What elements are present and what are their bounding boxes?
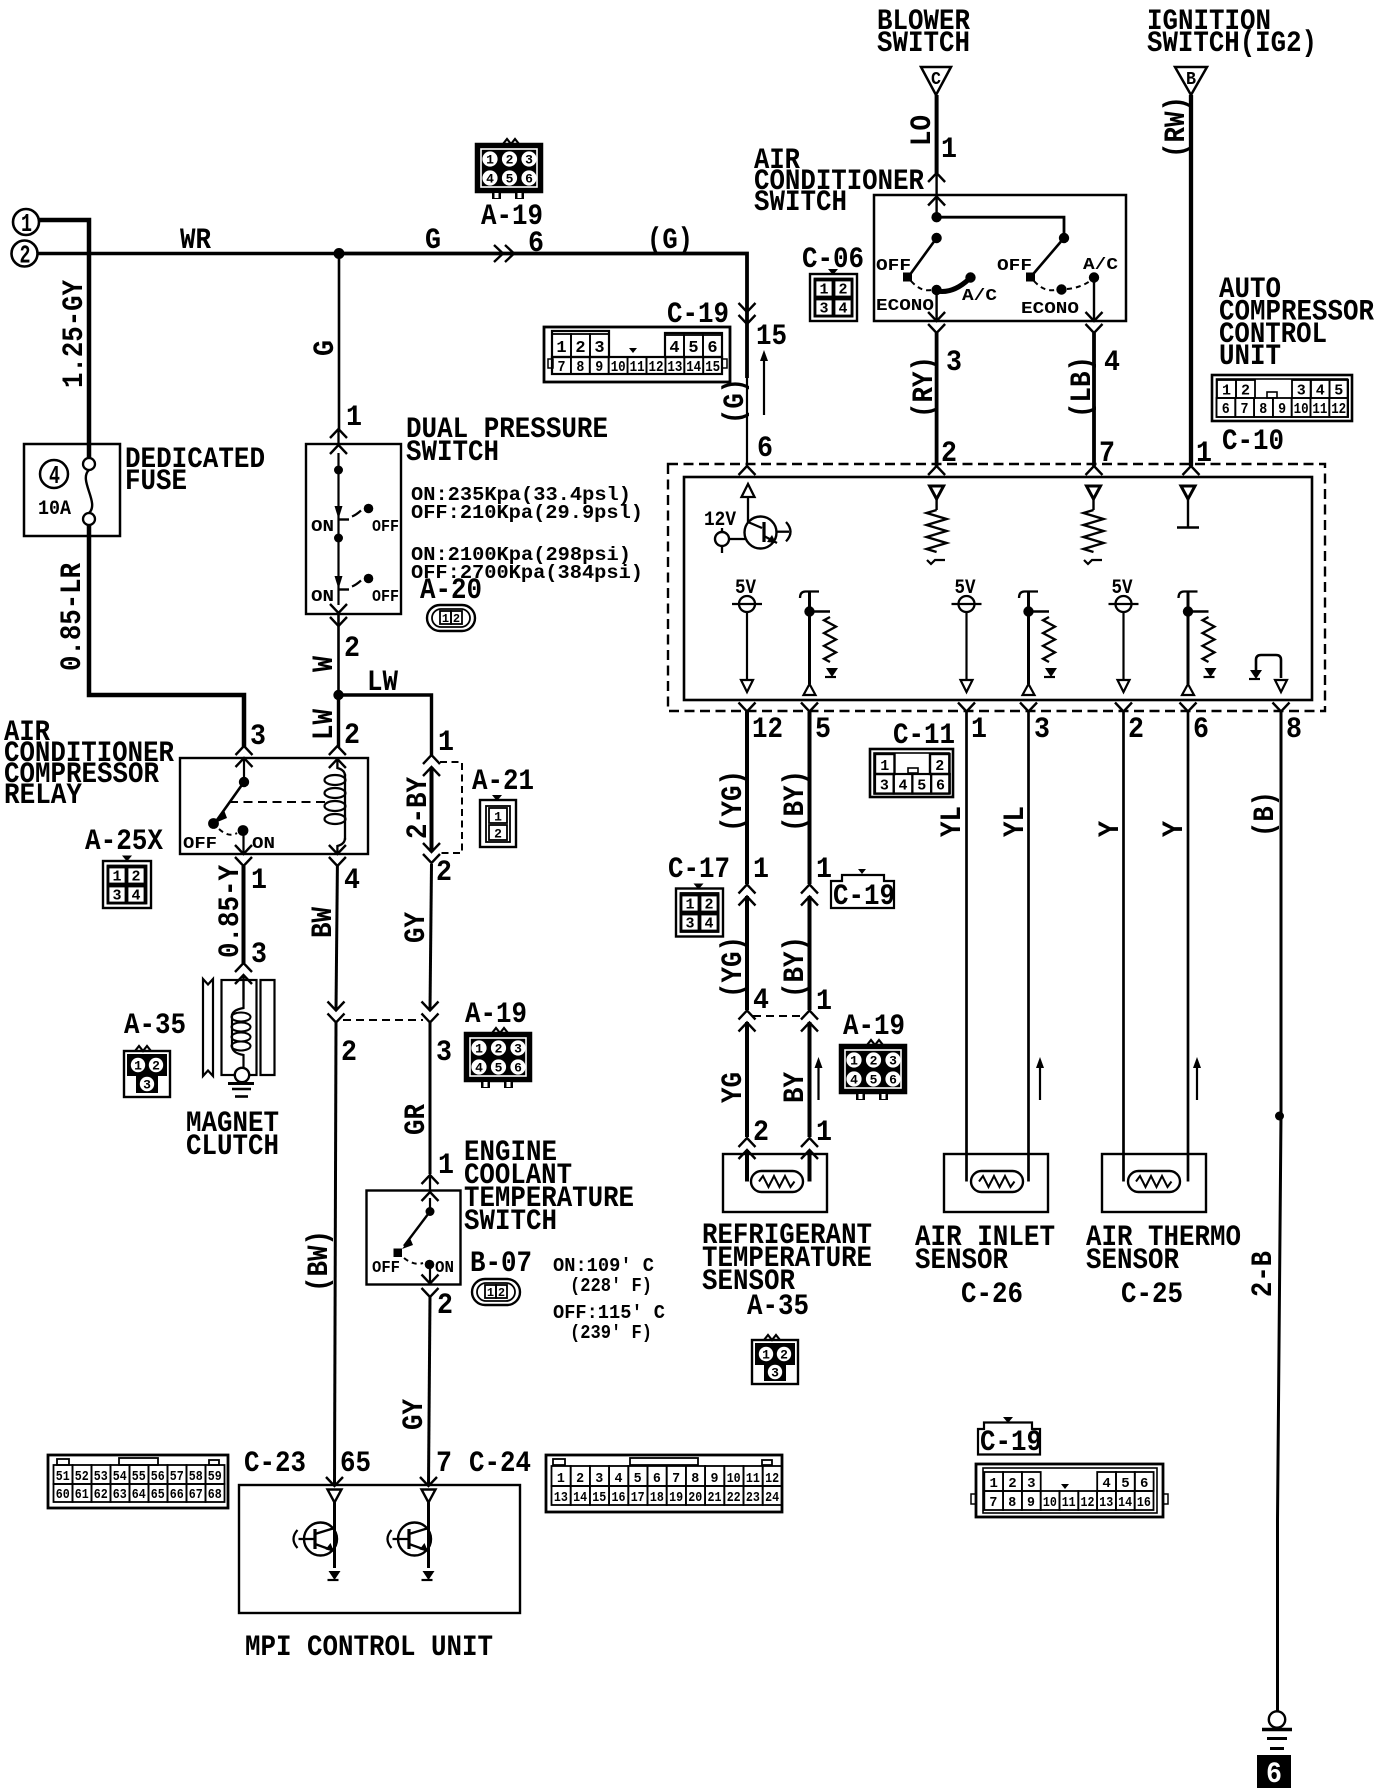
svg-text:1: 1 bbox=[438, 726, 454, 760]
svg-text:4: 4 bbox=[344, 864, 360, 898]
wire stub into DPS bbox=[337, 431, 339, 444]
svg-text:W: W bbox=[308, 656, 342, 672]
svg-text:1: 1 bbox=[685, 897, 694, 914]
svg-text:65: 65 bbox=[340, 1447, 371, 1481]
svg-text:2-B: 2-B bbox=[1247, 1251, 1281, 1297]
pin 7 crossing chevron bbox=[1086, 466, 1103, 475]
svg-text:(RW): (RW) bbox=[1160, 96, 1194, 158]
AC switch right ECONO contact dot bbox=[1056, 284, 1066, 294]
svg-text:3: 3 bbox=[525, 153, 533, 168]
sensor chevrons on BY wire bbox=[801, 1138, 818, 1159]
wire stub into AC switch bbox=[935, 175, 937, 217]
chevron at MPI pin 65 bbox=[326, 1477, 343, 1486]
svg-text:Y: Y bbox=[1158, 821, 1192, 837]
svg-text:12V: 12V bbox=[704, 509, 736, 532]
ECT dashed arc OFF-ON bbox=[404, 1258, 423, 1264]
pin 6 crossing chevron bbox=[739, 466, 756, 475]
chevron above ECT switch bbox=[422, 1175, 439, 1184]
svg-text:0.85-LR: 0.85-LR bbox=[56, 563, 90, 671]
ECT pole dot bbox=[426, 1207, 435, 1216]
svg-text:4: 4 bbox=[1102, 1476, 1110, 1492]
wire G to connector A-19 and down to control unit pin 6 bbox=[339, 254, 747, 379]
svg-text:(G): (G) bbox=[719, 378, 753, 424]
svg-text:1: 1 bbox=[346, 401, 362, 435]
svg-text:11: 11 bbox=[746, 1471, 760, 1487]
svg-text:1: 1 bbox=[816, 985, 832, 1019]
svg-text:3: 3 bbox=[112, 888, 121, 905]
svg-text:5: 5 bbox=[506, 172, 514, 187]
chevron above DPS bbox=[330, 429, 347, 438]
svg-text:51: 51 bbox=[56, 1469, 70, 1485]
air thermo sensor box bbox=[1102, 1154, 1206, 1212]
svg-text:ON:109' C: ON:109' C bbox=[553, 1255, 654, 1277]
connector C-19 (bottom, 16-pin) bbox=[971, 1464, 1168, 1517]
svg-text:C-19: C-19 bbox=[980, 1426, 1042, 1460]
svg-text:ON: ON bbox=[311, 518, 334, 537]
svg-text:12: 12 bbox=[752, 713, 783, 747]
svg-text:SENSOR: SENSOR bbox=[1086, 1244, 1179, 1278]
svg-text:7: 7 bbox=[1099, 437, 1115, 471]
svg-text:23: 23 bbox=[746, 1490, 760, 1506]
connector A-19 (left, 6-pin) bbox=[465, 1028, 531, 1088]
connector A-19 chevrons on YG wire bbox=[739, 1011, 756, 1032]
svg-text:1: 1 bbox=[971, 713, 987, 747]
ECT output stub bbox=[429, 1264, 431, 1284]
magnet clutch right plate bbox=[261, 980, 275, 1075]
svg-text:B-07: B-07 bbox=[470, 1247, 532, 1281]
svg-text:7: 7 bbox=[558, 359, 566, 376]
svg-text:2: 2 bbox=[1008, 1476, 1016, 1492]
svg-text:6: 6 bbox=[757, 432, 773, 466]
svg-text:2: 2 bbox=[131, 869, 140, 886]
svg-text:2: 2 bbox=[437, 1289, 453, 1323]
svg-text:12: 12 bbox=[1081, 1495, 1095, 1511]
svg-text:16: 16 bbox=[1137, 1495, 1151, 1511]
svg-text:C: C bbox=[931, 70, 941, 90]
svg-text:BY: BY bbox=[779, 1072, 813, 1103]
svg-text:1: 1 bbox=[438, 1149, 454, 1183]
svg-text:SWITCH: SWITCH bbox=[464, 1205, 557, 1239]
label DUAL PRESSURE SWITCH bbox=[406, 413, 608, 470]
relay common contact dot bbox=[239, 777, 249, 787]
auto compressor control unit solid box bbox=[684, 477, 1312, 700]
svg-text:68: 68 bbox=[208, 1487, 222, 1503]
svg-text:MPI CONTROL UNIT: MPI CONTROL UNIT bbox=[245, 1631, 493, 1665]
svg-text:2: 2 bbox=[453, 612, 460, 626]
svg-text:SWITCH: SWITCH bbox=[754, 186, 847, 220]
svg-text:4: 4 bbox=[1104, 346, 1120, 380]
svg-text:2: 2 bbox=[753, 1116, 769, 1150]
connector C-19 tag (bottom) bbox=[978, 1417, 1042, 1460]
svg-text:3: 3 bbox=[1027, 1476, 1035, 1492]
svg-text:OFF: OFF bbox=[183, 835, 217, 854]
AC switch right dashed arc ECONO-A/C bbox=[1067, 281, 1090, 289]
svg-text:4: 4 bbox=[838, 301, 847, 318]
svg-text:BW: BW bbox=[307, 907, 341, 938]
svg-text:4: 4 bbox=[486, 172, 494, 187]
node 2 (page link circle) bbox=[12, 241, 38, 271]
svg-text:A/C: A/C bbox=[1083, 256, 1118, 275]
svg-text:3: 3 bbox=[1297, 383, 1306, 400]
svg-text:15: 15 bbox=[705, 359, 720, 376]
svg-text:2: 2 bbox=[495, 1042, 503, 1057]
fuse number circle 4 bbox=[40, 460, 68, 491]
svg-text:A-21: A-21 bbox=[472, 765, 534, 799]
wire stub into ECT switch bbox=[429, 1177, 431, 1191]
wire (RW) from ignition switch to control unit pin 1 bbox=[1189, 95, 1193, 466]
svg-text:10: 10 bbox=[611, 359, 626, 376]
chevron on BW wire at A-19 bbox=[328, 1002, 345, 1023]
svg-text:6: 6 bbox=[1140, 1476, 1148, 1492]
svg-text:OFF: OFF bbox=[997, 257, 1032, 276]
chevron at ECT bottom edge bbox=[422, 1275, 439, 1284]
connector A-19 (mid, 6-pin) bbox=[840, 1040, 906, 1100]
DPS switch 1 lever arc bbox=[352, 511, 361, 517]
svg-text:OFF: OFF bbox=[372, 1259, 400, 1278]
svg-text:60: 60 bbox=[56, 1487, 70, 1503]
svg-text:1: 1 bbox=[1196, 437, 1212, 471]
connector A-35 (left, 3-pin) bbox=[124, 1046, 170, 1097]
connector C-17 chevrons on BY wire bbox=[801, 885, 818, 906]
AC switch left OFF contact bbox=[903, 273, 912, 282]
svg-text:16: 16 bbox=[612, 1490, 626, 1506]
svg-text:1: 1 bbox=[442, 612, 449, 626]
wire BY lower segment bbox=[808, 1022, 812, 1137]
svg-text:1: 1 bbox=[486, 153, 494, 168]
svg-text:5: 5 bbox=[495, 1061, 503, 1076]
transistor Q3 (MPI pin 7 driver) bbox=[388, 1490, 436, 1569]
relay output stub pin 1 bbox=[242, 830, 244, 853]
chevron below DPS bbox=[330, 617, 347, 626]
chevron at AC switch top edge bbox=[928, 197, 945, 206]
svg-text:1: 1 bbox=[762, 1348, 770, 1363]
svg-text:(RY): (RY) bbox=[908, 356, 942, 418]
svg-text:1: 1 bbox=[880, 758, 889, 775]
svg-text:YL: YL bbox=[999, 806, 1033, 837]
air thermo sensor element (thermistor) bbox=[1128, 1171, 1180, 1192]
wire LW down to compressor relay bbox=[337, 695, 340, 747]
wire W from DPS pin 2 bbox=[337, 614, 340, 695]
AC switch right A/C contact dot bbox=[1089, 272, 1099, 282]
pin 8 crossing chevron bbox=[1273, 703, 1290, 712]
svg-text:Y: Y bbox=[1094, 821, 1128, 837]
svg-text:OFF: OFF bbox=[876, 257, 911, 276]
svg-text:2-BY: 2-BY bbox=[402, 777, 436, 839]
svg-text:1: 1 bbox=[112, 869, 121, 886]
direction arrow up beside (G) wire bbox=[760, 350, 768, 415]
svg-text:(228' F): (228' F) bbox=[570, 1275, 652, 1297]
svg-text:2: 2 bbox=[780, 1348, 788, 1363]
svg-text:20: 20 bbox=[688, 1490, 702, 1506]
svg-text:4: 4 bbox=[1316, 383, 1325, 400]
wire YG lower segment bbox=[745, 1022, 749, 1137]
svg-text:3: 3 bbox=[594, 339, 604, 358]
chevron at MPI pin 7 bbox=[420, 1477, 437, 1486]
AC switch left A/C contact dot bbox=[965, 272, 975, 282]
svg-text:SENSOR: SENSOR bbox=[915, 1244, 1008, 1278]
svg-text:0.85-Y: 0.85-Y bbox=[214, 865, 248, 958]
svg-text:(BY): (BY) bbox=[779, 936, 813, 998]
svg-text:FUSE: FUSE bbox=[125, 465, 187, 499]
svg-text:3: 3 bbox=[685, 916, 694, 933]
wire (YG) mid segment bbox=[745, 896, 749, 1010]
node 1 (page link circle) bbox=[13, 209, 39, 239]
sensor input with pull resistor (pin 3) bbox=[1019, 592, 1038, 685]
wire 0.85-Y to magnet clutch bbox=[242, 866, 246, 963]
svg-text:54: 54 bbox=[113, 1469, 127, 1485]
svg-text:2: 2 bbox=[506, 153, 514, 168]
svg-text:2: 2 bbox=[152, 1059, 160, 1074]
wire stub into magnet clutch bbox=[242, 975, 244, 1000]
pull-down resistor R2 under pin 7 bbox=[1084, 486, 1104, 564]
svg-text:(G): (G) bbox=[647, 224, 693, 258]
ECT lever (OFF position) bbox=[402, 1212, 430, 1250]
AC switch right pole dot bbox=[1059, 233, 1069, 243]
sensor input with pull resistor (pin 6) bbox=[1179, 592, 1198, 685]
chevrons at magnet clutch bbox=[235, 963, 252, 984]
svg-text:1: 1 bbox=[557, 1471, 565, 1487]
svg-text:3: 3 bbox=[251, 938, 267, 972]
svg-text:1: 1 bbox=[989, 1476, 997, 1492]
svg-text:(239' F): (239' F) bbox=[570, 1322, 652, 1344]
svg-text:C-19: C-19 bbox=[667, 298, 729, 332]
svg-text:OFF: OFF bbox=[372, 518, 399, 537]
svg-text:15: 15 bbox=[756, 320, 787, 354]
svg-text:64: 64 bbox=[132, 1487, 146, 1503]
svg-text:OFF:210Kpa(29.9psl): OFF:210Kpa(29.9psl) bbox=[411, 502, 643, 524]
svg-text:4: 4 bbox=[850, 1073, 858, 1088]
transistor Q1 (PNP, 12V switch) bbox=[745, 517, 791, 549]
chevrons at A-21 bottom bbox=[423, 843, 440, 863]
MPI control unit box bbox=[239, 1485, 520, 1613]
svg-text:65: 65 bbox=[151, 1487, 165, 1503]
chevron at DPS bottom edge bbox=[330, 604, 347, 613]
svg-text:7: 7 bbox=[436, 1447, 452, 1481]
svg-text:7: 7 bbox=[672, 1471, 680, 1487]
AC switch left dashed arc OFF-ECONO bbox=[911, 281, 931, 290]
connector A-21 (2-pin vertical) bbox=[480, 795, 516, 847]
svg-text:24: 24 bbox=[765, 1490, 779, 1506]
dual pressure switch box bbox=[306, 444, 401, 614]
page number box 6 bbox=[1257, 1755, 1291, 1790]
svg-text:3: 3 bbox=[1034, 713, 1050, 747]
svg-text:1: 1 bbox=[556, 339, 566, 358]
wire (BY) from pin 5 bbox=[808, 712, 812, 885]
svg-text:OFF:115' C: OFF:115' C bbox=[553, 1302, 665, 1324]
svg-text:9: 9 bbox=[711, 1471, 719, 1487]
svg-text:12: 12 bbox=[1331, 401, 1346, 418]
relay ON contact dot bbox=[238, 825, 249, 836]
svg-text:11: 11 bbox=[1312, 401, 1327, 418]
svg-text:GR: GR bbox=[400, 1104, 434, 1135]
svg-text:C-25: C-25 bbox=[1121, 1278, 1183, 1312]
svg-text:62: 62 bbox=[94, 1487, 108, 1503]
AC switch left pole dot bbox=[931, 233, 941, 243]
svg-text:18: 18 bbox=[650, 1490, 664, 1506]
svg-text:B: B bbox=[1186, 70, 1196, 90]
label AIR INLET SENSOR bbox=[915, 1221, 1055, 1278]
svg-text:14: 14 bbox=[1118, 1495, 1132, 1511]
connector C-10 (12-pin) bbox=[1212, 375, 1352, 421]
svg-text:3: 3 bbox=[250, 720, 266, 754]
sensor input with pull resistor (pin 5) bbox=[800, 592, 819, 685]
svg-text:22: 22 bbox=[727, 1490, 741, 1506]
svg-text:2: 2 bbox=[1128, 713, 1144, 747]
svg-text:OFF: OFF bbox=[372, 588, 399, 607]
chevrons AC switch left output bbox=[928, 312, 945, 333]
AC switch right dashed arc OFF-ECONO bbox=[1034, 281, 1055, 290]
svg-text:A-25X: A-25X bbox=[85, 825, 163, 859]
ECT OFF contact square bbox=[394, 1249, 403, 1258]
relay OFF contact dot bbox=[208, 818, 219, 829]
open triangle at pin 8 bbox=[1275, 680, 1287, 692]
svg-text:1: 1 bbox=[941, 133, 957, 167]
svg-text:6: 6 bbox=[936, 778, 945, 795]
svg-text:C-23: C-23 bbox=[244, 1447, 306, 1481]
svg-text:C-24: C-24 bbox=[469, 1447, 531, 1481]
direction arrow beside BY wire bbox=[815, 1057, 823, 1100]
wire YL from pin 1 bbox=[965, 712, 968, 1182]
label ENGINE COOLANT TEMPERATURE SWITCH bbox=[464, 1136, 634, 1239]
svg-text:2: 2 bbox=[575, 339, 585, 358]
svg-text:1: 1 bbox=[487, 1286, 494, 1300]
svg-text:55: 55 bbox=[132, 1469, 146, 1485]
svg-text:4: 4 bbox=[475, 1061, 483, 1076]
connector C-23 (68-pin block) bbox=[48, 1455, 228, 1508]
12V supply arrow (collector to +12V) bbox=[742, 484, 755, 522]
dedicated fuse box bbox=[24, 444, 120, 536]
direction arrow beside Y wire bbox=[1193, 1057, 1201, 1100]
svg-text:SWITCH(IG2): SWITCH(IG2) bbox=[1147, 27, 1317, 61]
svg-text:RELAY: RELAY bbox=[4, 779, 82, 813]
svg-text:4: 4 bbox=[131, 888, 140, 905]
AC switch left output stub bbox=[935, 290, 937, 320]
svg-text:6: 6 bbox=[889, 1073, 897, 1088]
wire (B)/2-B from pin 8 to ground bbox=[1278, 712, 1282, 1713]
connector B-07 (oval 2-pin) bbox=[472, 1279, 520, 1305]
svg-text:14: 14 bbox=[686, 359, 701, 376]
wire Y from pin 2 bbox=[1122, 712, 1125, 1182]
svg-text:7: 7 bbox=[1241, 401, 1249, 418]
svg-text:5: 5 bbox=[815, 713, 831, 747]
svg-text:A-19: A-19 bbox=[481, 200, 543, 234]
svg-text:4: 4 bbox=[669, 339, 679, 358]
AC switch thick arc ECONO-A/C (selected) bbox=[937, 279, 969, 292]
svg-text:2: 2 bbox=[20, 241, 31, 271]
pin 12 crossing chevron bbox=[739, 703, 756, 712]
wire LO from blower switch bbox=[935, 95, 939, 173]
svg-text:3: 3 bbox=[889, 1054, 897, 1069]
dashed link on A-19 (BW/GY wires) bbox=[343, 1019, 423, 1021]
wire YG stub into sensor bbox=[745, 1150, 749, 1182]
chevrons below relay pin 4 bbox=[329, 845, 346, 866]
svg-text:52: 52 bbox=[75, 1469, 89, 1485]
svg-text:1: 1 bbox=[475, 1042, 483, 1057]
pull-down resistor R1 under pin 2 bbox=[927, 486, 947, 564]
connector A-35 (bottom, 3-pin) bbox=[752, 1335, 798, 1384]
magnet clutch coil box bbox=[222, 980, 257, 1075]
svg-text:5: 5 bbox=[688, 339, 698, 358]
svg-text:8: 8 bbox=[1259, 401, 1267, 418]
svg-text:A/C: A/C bbox=[962, 287, 997, 306]
svg-text:A-20: A-20 bbox=[420, 574, 482, 608]
label AIR CONDITIONER COMPRESSOR RELAY bbox=[4, 716, 174, 813]
svg-text:10A: 10A bbox=[38, 498, 71, 521]
svg-text:7: 7 bbox=[989, 1495, 997, 1511]
connector C-24 (24-pin) bbox=[546, 1455, 782, 1512]
DPS switch 2 OFF contact dot bbox=[364, 574, 374, 584]
svg-text:2: 2 bbox=[344, 719, 360, 753]
auto compressor control unit dashed boundary bbox=[668, 464, 1325, 711]
svg-text:6: 6 bbox=[525, 172, 533, 187]
svg-text:(LB): (LB) bbox=[1066, 356, 1100, 418]
DPS switch 2 pole bbox=[335, 576, 350, 590]
connector C-17 (4-pin) bbox=[676, 884, 723, 937]
wire LW branch to A-21/engine coolant switch bbox=[339, 695, 432, 755]
svg-text:4: 4 bbox=[704, 916, 713, 933]
svg-text:5: 5 bbox=[870, 1073, 878, 1088]
ECT ON contact dot bbox=[425, 1260, 435, 1270]
svg-text:1.25-GY: 1.25-GY bbox=[58, 280, 92, 388]
relay lever (OFF position) bbox=[215, 782, 244, 823]
svg-text:3: 3 bbox=[514, 1042, 522, 1057]
svg-text:56: 56 bbox=[151, 1469, 165, 1485]
svg-text:3: 3 bbox=[946, 346, 962, 380]
svg-text:2: 2 bbox=[941, 437, 957, 471]
svg-text:3: 3 bbox=[595, 1471, 603, 1487]
chevrons below relay pin 1 bbox=[235, 845, 252, 866]
svg-text:(YG): (YG) bbox=[717, 936, 751, 998]
svg-text:LW: LW bbox=[308, 709, 342, 740]
DPS mid dot bbox=[334, 534, 343, 543]
svg-text:12: 12 bbox=[765, 1471, 779, 1487]
svg-text:66: 66 bbox=[170, 1487, 184, 1503]
chassis ground G1 bbox=[1262, 1711, 1292, 1748]
svg-text:13: 13 bbox=[1099, 1495, 1113, 1511]
internal ground mark at pin 8 loop bbox=[1249, 670, 1262, 679]
svg-text:4: 4 bbox=[899, 778, 908, 795]
connector A-25X (4-pin) bbox=[103, 856, 151, 909]
wire (LB) to control unit pin 7 bbox=[1092, 333, 1096, 466]
svg-text:GY: GY bbox=[398, 1399, 432, 1430]
pin 1 crossing chevron bbox=[1183, 466, 1200, 475]
label AUTO COMPRESSOR CONTROL UNIT bbox=[1219, 273, 1374, 374]
svg-text:C-26: C-26 bbox=[961, 1278, 1023, 1312]
DPS switch 1 OFF contact dot bbox=[364, 504, 374, 514]
svg-text:(B): (B) bbox=[1249, 791, 1283, 837]
svg-text:13: 13 bbox=[554, 1490, 568, 1506]
wire (BW) long segment bbox=[335, 1022, 337, 1485]
relay dashed arc OFF-ON bbox=[219, 829, 237, 835]
svg-text:SWITCH: SWITCH bbox=[877, 27, 970, 61]
connector C-19 pass-through chevrons on (G) wire bbox=[739, 303, 756, 324]
svg-text:63: 63 bbox=[113, 1487, 127, 1503]
svg-text:19: 19 bbox=[669, 1490, 683, 1506]
svg-text:1: 1 bbox=[819, 282, 828, 299]
connector A-19 (top, 6-pin) bbox=[476, 139, 542, 199]
magnet clutch ground bbox=[228, 1084, 254, 1097]
ignition sense input under pin 1 bbox=[1177, 486, 1199, 528]
AC switch right output stub bbox=[1093, 278, 1095, 321]
wire YL from pin 3 bbox=[1027, 712, 1030, 1182]
arrow into blower wire bbox=[928, 173, 945, 182]
chevron below DPS top edge bbox=[330, 445, 347, 454]
svg-text:(BW): (BW) bbox=[303, 1230, 337, 1292]
wire GR segment bbox=[429, 1022, 432, 1174]
pin 2 crossing chevron (bottom) bbox=[1115, 703, 1132, 712]
svg-text:5: 5 bbox=[917, 778, 926, 795]
wire 2-BY bbox=[430, 767, 434, 852]
